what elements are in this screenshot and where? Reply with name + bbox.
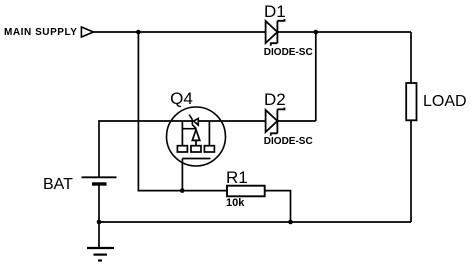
node junction J4 battery/ground [97, 220, 102, 225]
diode D2 triangle [266, 110, 278, 132]
label R1 [226, 169, 248, 186]
transistor Q4 channel squares [177, 146, 187, 152]
wire: D1 cathode to load corner [277, 31, 411, 33]
transistor Q4 body circle [167, 107, 226, 166]
wire: J1 down to gate row [138, 32, 182, 191]
port MAIN SUPPLY [81, 27, 93, 37]
diode D2 schottky bar [276, 109, 278, 133]
battery BAT plates [82, 176, 117, 178]
label BAT [43, 177, 73, 193]
label MAIN SUPPLY [4, 28, 77, 38]
transistor Q4 substrate arrow [192, 130, 200, 141]
label 10k [226, 198, 244, 209]
transistor Q4 source vertical [181, 121, 183, 146]
wire: R1 right lead [265, 191, 291, 222]
node junction J2 gate/R1 [180, 188, 185, 193]
ground [98, 222, 100, 248]
wire: D2 cathode right [277, 120, 315, 122]
node junction J1 on top wire [136, 30, 141, 35]
wire: top right to LOAD [410, 32, 412, 83]
resistor LOAD body [406, 83, 416, 120]
label DIODE-SC for D2 [264, 137, 313, 147]
wire: battery top lead [99, 121, 266, 177]
transistor Q4 body diode zigzag [189, 115, 192, 120]
diode D1 triangle [266, 21, 278, 43]
transistor Q4 substrate stub [182, 128, 196, 130]
label DIODE-SC for D1 [264, 48, 313, 58]
wire: battery bottom lead [98, 184, 100, 222]
node junction JD1 [314, 30, 319, 35]
transistor Q4 body diode triangle [194, 119, 199, 126]
wire bottom rail [99, 221, 411, 223]
label D1 [264, 3, 286, 20]
label Q4 [170, 90, 193, 107]
wire top: port to D1 anode [93, 31, 265, 33]
resistor R1 body [227, 186, 265, 197]
wire: LOAD to bottom rail [410, 120, 412, 222]
wire: J2 to R1 left lead [182, 190, 227, 192]
transistor Q4 gate plate [182, 158, 210, 160]
transistor Q4 body diode bar [191, 119, 193, 124]
wire: Q4 gate lead down [181, 159, 183, 191]
diode D1 schottky bar [276, 21, 278, 43]
wire: JD1 down to D2 cathode [315, 32, 317, 121]
label D2 [264, 91, 286, 108]
node junction J3 bottom wire [288, 220, 293, 225]
transistor Q4 drain vertical [208, 121, 210, 146]
label LOAD [423, 94, 467, 110]
